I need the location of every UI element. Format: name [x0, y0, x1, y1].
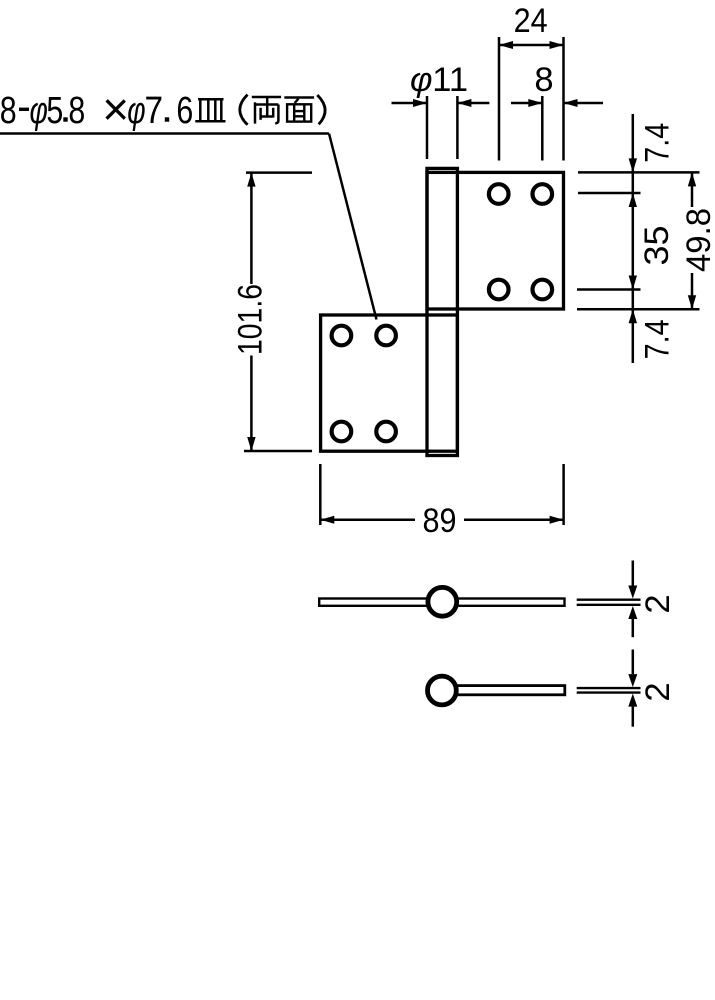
svg-text:24: 24	[514, 2, 548, 40]
side view 1 extension lines (2)	[577, 600, 641, 605]
svg-text:7: 7	[145, 89, 164, 131]
label leader diagonal	[329, 134, 377, 320]
dimension phi11/8 line segments	[392, 102, 604, 105]
kanji men (face)	[284, 98, 314, 122]
dimension phi11/8 arrowheads	[413, 99, 578, 107]
dimension line 89	[320, 518, 563, 521]
side view 1 knuckle circle	[428, 587, 457, 616]
lower left leaf plate	[321, 315, 458, 451]
hinge knuckle (pipe) outline	[427, 168, 457, 455]
arrowheads 89	[320, 516, 563, 524]
dimension 24 arrowheads	[499, 41, 564, 49]
screw holes upper leaf	[489, 184, 552, 299]
dimension line 49.8	[691, 172, 694, 309]
svg-text:89: 89	[423, 502, 457, 540]
svg-text:11: 11	[432, 61, 468, 99]
arrowheads 101.6	[247, 173, 255, 451]
dimension line 7.4/35/7.4 vertical	[632, 114, 635, 363]
side view 2 bar	[445, 686, 565, 695]
upper right leaf plate	[427, 172, 564, 309]
svg-text:φ: φ	[410, 61, 433, 99]
svg-text:×: ×	[102, 83, 129, 135]
label leader underline	[0, 132, 329, 135]
screw holes lower leaf	[332, 326, 396, 442]
svg-text:8: 8	[68, 90, 85, 132]
svg-text:35: 35	[638, 226, 676, 266]
side view 1 (open) bar	[319, 599, 564, 606]
svg-text:6: 6	[176, 90, 193, 132]
extension lines right side	[577, 172, 700, 309]
closing fullwidth paren	[317, 95, 325, 124]
dimension line 101.6	[250, 173, 253, 451]
side view 2 extension lines (2)	[577, 688, 641, 693]
svg-text:8: 8	[534, 61, 553, 99]
arrowheads 7.4/35/7.4	[629, 158, 637, 323]
side view 2 dimension 2 lines	[632, 650, 635, 727]
svg-text:7.4: 7.4	[638, 123, 676, 163]
dimension 24 line	[499, 44, 564, 47]
svg-text:8: 8	[0, 90, 17, 132]
label text latin part	[0, 83, 193, 135]
extension lines bottom (89)	[320, 464, 563, 525]
svg-text:2: 2	[639, 682, 677, 701]
svg-text:2: 2	[639, 594, 677, 613]
opening fullwidth paren	[240, 95, 248, 125]
arrowheads 49.8	[688, 172, 696, 309]
kanji ryou (both)	[252, 97, 281, 124]
svg-text:49.8: 49.8	[680, 208, 715, 272]
side view 2 dimension 2 arrowheads	[628, 674, 637, 707]
extension lines top	[427, 37, 564, 161]
svg-text:7.4: 7.4	[638, 319, 676, 359]
side view 2 knuckle circle	[428, 676, 457, 705]
svg-text:φ: φ	[30, 90, 48, 132]
side view 1 dimension 2 lines	[632, 561, 635, 638]
extension lines left (101.6)	[244, 173, 312, 451]
svg-text:φ: φ	[127, 90, 145, 132]
svg-text:101.6: 101.6	[232, 284, 270, 355]
svg-text:5: 5	[46, 90, 63, 132]
kanji sara (dish/countersunk)	[195, 99, 225, 121]
side view 1 dimension 2 arrowheads	[628, 586, 637, 620]
